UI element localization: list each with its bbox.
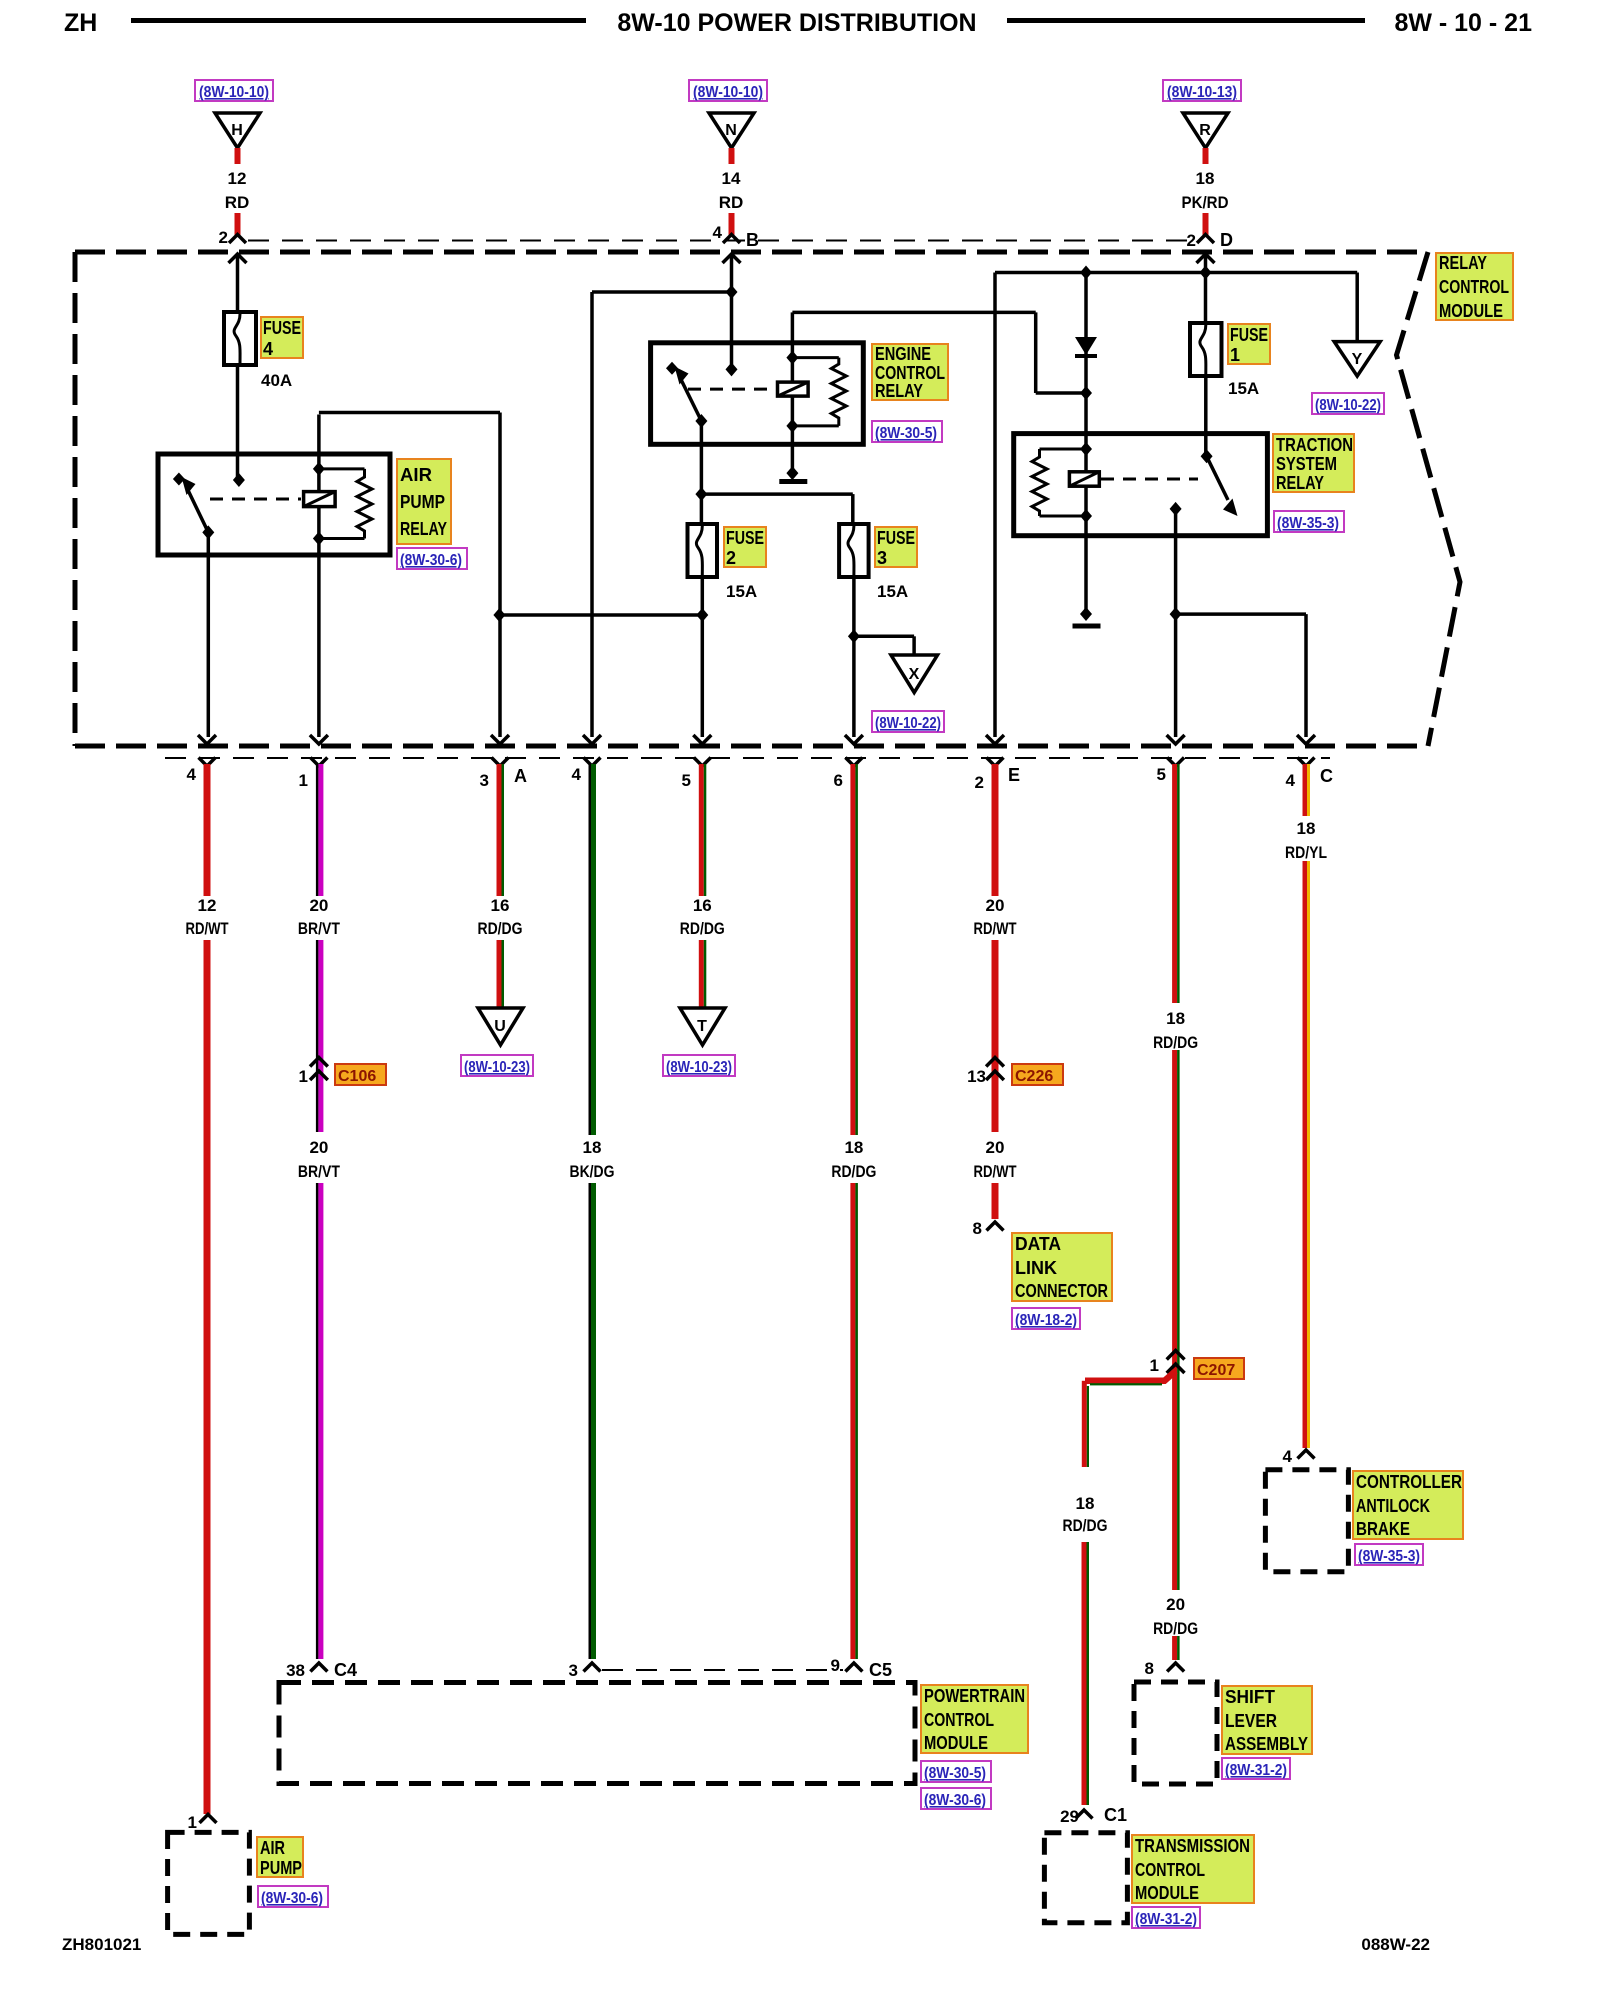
svg-text:(8W-30-6): (8W-30-6) bbox=[261, 1890, 323, 1907]
svg-text:18: 18 bbox=[1297, 819, 1316, 838]
diode D1 bbox=[1075, 266, 1097, 450]
ground symbol bbox=[779, 479, 807, 484]
svg-text:DATA: DATA bbox=[1015, 1234, 1061, 1254]
svg-text:RELAY: RELAY bbox=[1439, 253, 1487, 273]
svg-text:12: 12 bbox=[228, 169, 247, 188]
link (8W-31-2) bbox=[1222, 1758, 1290, 1779]
wire coil feed (L from x500 bus) bbox=[319, 413, 500, 616]
svg-text:8W - 10 - 21: 8W - 10 - 21 bbox=[1394, 9, 1532, 37]
svg-text:(8W-35-3): (8W-35-3) bbox=[1277, 515, 1339, 532]
svg-text:R: R bbox=[1199, 122, 1211, 139]
svg-text:8: 8 bbox=[973, 1219, 982, 1238]
svg-text:16: 16 bbox=[693, 896, 712, 915]
label AIR PUMP bbox=[257, 1837, 303, 1878]
svg-text:CONTROL: CONTROL bbox=[875, 363, 945, 383]
wire exit arrow pin 4 bbox=[198, 735, 216, 744]
traction relay switch bbox=[1201, 449, 1238, 516]
svg-text:15A: 15A bbox=[1228, 379, 1259, 398]
svg-text:(8W-31-2): (8W-31-2) bbox=[1225, 1762, 1287, 1779]
pin 9 C5 bbox=[831, 1656, 892, 1680]
svg-text:(8W-30-5): (8W-30-5) bbox=[875, 425, 937, 442]
pin 5 (fuse2 out) bbox=[682, 758, 711, 791]
svg-text:MODULE: MODULE bbox=[1439, 301, 1503, 321]
svg-text:18: 18 bbox=[844, 1138, 863, 1157]
svg-text:C: C bbox=[1320, 766, 1333, 786]
svg-text:PK/RD: PK/RD bbox=[1182, 193, 1229, 212]
air pump relay coil resistor bbox=[313, 462, 372, 546]
svg-text:(8W-10-13): (8W-10-13) bbox=[1167, 84, 1237, 101]
svg-text:088W-22: 088W-22 bbox=[1361, 1935, 1430, 1954]
wire air pump relay switch to pin 4 bbox=[207, 532, 211, 737]
svg-text:RD/DG: RD/DG bbox=[1153, 1033, 1198, 1052]
thin dashed pin line PCM bbox=[602, 1669, 843, 1671]
connector C207 bbox=[1150, 1351, 1244, 1380]
label RELAY CONTROL MODULE bbox=[1436, 253, 1513, 321]
label FUSE 2 bbox=[724, 527, 766, 568]
svg-text:ZH801021: ZH801021 bbox=[62, 1935, 141, 1954]
air pump box bbox=[168, 1832, 250, 1934]
air pump relay fixed contact dot bbox=[233, 473, 245, 487]
pin 38 C4 bbox=[286, 1660, 357, 1680]
svg-text:CONTROL: CONTROL bbox=[1439, 277, 1509, 297]
pin 4 node C bbox=[1286, 758, 1333, 791]
label DATA LINK CONNECTOR bbox=[1012, 1233, 1112, 1301]
engine control relay coil bbox=[778, 358, 809, 426]
wire air pump relay coil to pin 1 bbox=[317, 539, 321, 738]
connector C106 bbox=[299, 1058, 386, 1087]
link (8W-30-5) bbox=[921, 1761, 991, 1782]
wire 16 RD/DG column (T) bbox=[680, 764, 725, 1008]
svg-text:SYSTEM: SYSTEM bbox=[1276, 454, 1337, 474]
dashed actuator link bbox=[1101, 478, 1198, 481]
wire exit arrow pin 3 node A bbox=[491, 735, 509, 744]
arrow into module at pin 2 (H) bbox=[229, 254, 247, 312]
svg-text:H: H bbox=[231, 122, 243, 139]
dashed actuator link bbox=[210, 498, 301, 501]
svg-text:(8W-30-6): (8W-30-6) bbox=[400, 552, 462, 569]
svg-text:AIR: AIR bbox=[260, 1838, 285, 1858]
wire 18 PK/RD from R bbox=[1182, 148, 1229, 235]
svg-text:RD/DG: RD/DG bbox=[680, 919, 725, 938]
svg-text:U: U bbox=[494, 1018, 506, 1035]
svg-text:2: 2 bbox=[1187, 231, 1196, 250]
svg-text:E: E bbox=[1008, 765, 1020, 785]
shift lever assembly box bbox=[1134, 1682, 1217, 1784]
svg-text:LINK: LINK bbox=[1015, 1258, 1057, 1278]
wire 18 RD/DG column (C207) bbox=[1153, 764, 1198, 1590]
svg-text:8: 8 bbox=[1145, 1659, 1154, 1678]
svg-text:BRAKE: BRAKE bbox=[1356, 1519, 1410, 1539]
svg-text:RD/DG: RD/DG bbox=[1153, 1619, 1198, 1638]
connector triangle R (8W-10-13) bbox=[1163, 80, 1241, 148]
engine control relay box bbox=[651, 343, 864, 445]
svg-text:CONTROLLER: CONTROLLER bbox=[1356, 1472, 1462, 1492]
svg-text:C1: C1 bbox=[1104, 1805, 1127, 1825]
wire exit arrow pin 4 node C bbox=[1297, 735, 1315, 744]
air pump relay switch bbox=[173, 473, 214, 540]
arrow into module at pin 2 (D) bbox=[1197, 254, 1215, 280]
connector triangle T bbox=[680, 1008, 725, 1045]
wire branch to TCM bbox=[1063, 1371, 1176, 1805]
air pump relay box bbox=[158, 454, 390, 555]
svg-text:(8W-10-10): (8W-10-10) bbox=[199, 84, 269, 101]
ground symbol bbox=[1073, 624, 1101, 629]
svg-text:20: 20 bbox=[986, 1138, 1005, 1157]
air pump relay coil bbox=[304, 469, 336, 539]
label POWERTRAIN CONTROL MODULE bbox=[921, 1685, 1028, 1753]
transmission control module box bbox=[1044, 1833, 1127, 1923]
svg-text:C226: C226 bbox=[1015, 1068, 1053, 1085]
link (8W-18-2) bbox=[1012, 1308, 1080, 1329]
svg-text:TRACTION: TRACTION bbox=[1276, 435, 1353, 455]
traction relay output dot bbox=[1170, 502, 1182, 516]
engine control relay switch bbox=[666, 362, 707, 428]
pin 5 (traction out) bbox=[1157, 758, 1185, 785]
svg-text:ENGINE: ENGINE bbox=[875, 344, 931, 364]
thin dashed connector line at module top bbox=[248, 240, 1196, 242]
wire exit arrow pin 5 bbox=[693, 735, 711, 744]
node junction B bus bbox=[726, 285, 738, 299]
svg-text:18: 18 bbox=[1076, 1494, 1095, 1513]
svg-text:8W-10 POWER DISTRIBUTION: 8W-10 POWER DISTRIBUTION bbox=[617, 9, 976, 37]
dashed actuator link bbox=[688, 388, 775, 391]
svg-text:CONTROL: CONTROL bbox=[1135, 1860, 1205, 1880]
wire 20 BR/VT lower bbox=[298, 1138, 341, 1659]
engine control relay coil to ground bbox=[786, 426, 798, 480]
wire fuse3 to pin 6 and X bbox=[848, 577, 914, 737]
traction relay coil bbox=[1069, 449, 1099, 516]
wire 18 RD/YL column (C) bbox=[1285, 764, 1327, 1448]
svg-text:1: 1 bbox=[1230, 345, 1240, 365]
svg-text:BK/DG: BK/DG bbox=[570, 1162, 615, 1181]
wire 18 BK/DG column bbox=[570, 764, 615, 1659]
arrow into module at pin 4 (B) bbox=[723, 254, 741, 369]
svg-text:BR/VT: BR/VT bbox=[298, 919, 341, 938]
svg-text:12: 12 bbox=[198, 896, 217, 915]
wire exit arrow pin 6 bbox=[845, 735, 863, 744]
svg-text:RD/DG: RD/DG bbox=[478, 919, 523, 938]
svg-text:2: 2 bbox=[975, 773, 984, 792]
svg-text:PUMP: PUMP bbox=[400, 492, 445, 512]
pin 8 data link connector bbox=[973, 1219, 1004, 1238]
svg-text:4: 4 bbox=[263, 339, 273, 359]
fuse 4 bbox=[224, 312, 256, 365]
wire 12 RD/WT column bbox=[186, 764, 229, 1814]
svg-text:RD/DG: RD/DG bbox=[1063, 1516, 1108, 1535]
connector triangle U bbox=[478, 1008, 523, 1045]
label FUSE 1 bbox=[1228, 324, 1270, 365]
svg-text:ASSEMBLY: ASSEMBLY bbox=[1225, 1734, 1308, 1754]
svg-text:FUSE: FUSE bbox=[726, 528, 764, 548]
svg-text:3: 3 bbox=[480, 771, 489, 790]
link (8W-10-22) bbox=[872, 711, 944, 732]
wire 20 BR/VT column bbox=[298, 764, 341, 1132]
thin dashed connector line at module bottom bbox=[165, 757, 1330, 759]
pin 4 (air pump feed) bbox=[187, 758, 216, 785]
svg-text:2: 2 bbox=[726, 548, 736, 568]
svg-text:(8W-10-23): (8W-10-23) bbox=[464, 1059, 530, 1076]
svg-text:AIR: AIR bbox=[400, 465, 432, 485]
svg-text:T: T bbox=[697, 1018, 707, 1035]
svg-text:N: N bbox=[725, 122, 737, 139]
svg-text:9: 9 bbox=[831, 1656, 840, 1675]
pin 1 air pump bbox=[188, 1813, 217, 1832]
svg-text:C106: C106 bbox=[338, 1068, 376, 1085]
svg-text:MODULE: MODULE bbox=[924, 1733, 988, 1753]
svg-text:Y: Y bbox=[1352, 351, 1363, 368]
svg-text:POWERTRAIN: POWERTRAIN bbox=[924, 1686, 1025, 1706]
svg-text:(8W-30-6): (8W-30-6) bbox=[924, 1792, 986, 1809]
wire B bus to BK/DG column bbox=[592, 292, 732, 737]
svg-text:20: 20 bbox=[1166, 1595, 1185, 1614]
label FUSE 3 bbox=[875, 527, 917, 568]
svg-text:BR/VT: BR/VT bbox=[298, 1162, 341, 1181]
svg-text:1: 1 bbox=[1150, 1356, 1159, 1375]
svg-text:RD/WT: RD/WT bbox=[186, 919, 229, 938]
svg-text:RELAY: RELAY bbox=[400, 519, 447, 539]
wire coil feed from diode bus bbox=[792, 312, 1086, 393]
wire ECR switch to fuse2/fuse3 bbox=[695, 421, 852, 524]
svg-text:ANTILOCK: ANTILOCK bbox=[1356, 1496, 1430, 1516]
wire 14 RD from N bbox=[719, 148, 744, 235]
svg-text:3: 3 bbox=[877, 548, 887, 568]
svg-text:4: 4 bbox=[187, 765, 197, 784]
engine control relay fixed contact dot bbox=[726, 362, 738, 376]
svg-text:18: 18 bbox=[1166, 1009, 1185, 1028]
pin 4 (BK/DG) bbox=[572, 758, 601, 785]
svg-text:X: X bbox=[909, 666, 920, 683]
svg-text:14: 14 bbox=[722, 169, 741, 188]
svg-text:(8W-10-22): (8W-10-22) bbox=[1315, 397, 1381, 414]
svg-text:1: 1 bbox=[299, 771, 308, 790]
fuse 1 bbox=[1190, 323, 1222, 376]
svg-text:CONTROL: CONTROL bbox=[924, 1710, 994, 1730]
label AIR PUMP RELAY bbox=[397, 459, 451, 544]
svg-text:18: 18 bbox=[1196, 169, 1215, 188]
svg-text:4: 4 bbox=[713, 223, 723, 242]
svg-text:ZH: ZH bbox=[64, 9, 97, 37]
wire 12 RD from H bbox=[225, 148, 250, 235]
wire exit arrow pin 4 BK/DG bbox=[583, 735, 601, 744]
engine control relay coil resistor bbox=[786, 351, 846, 433]
svg-text:(8W-18-2): (8W-18-2) bbox=[1015, 1312, 1077, 1329]
svg-text:4: 4 bbox=[1286, 771, 1296, 790]
link (8W-10-23) bbox=[663, 1055, 735, 1076]
svg-text:MODULE: MODULE bbox=[1135, 1883, 1199, 1903]
pin 4 controller antilock brake bbox=[1283, 1447, 1315, 1466]
fuse 1 feed bbox=[1204, 273, 1208, 324]
pin 1 (BR/VT) bbox=[299, 758, 328, 791]
wire 20 RD/WT column (DLC) bbox=[974, 764, 1017, 1132]
traction relay coil resistor bbox=[1032, 442, 1092, 523]
fuse 3 bbox=[839, 524, 869, 577]
link (8W-35-3) bbox=[1355, 1544, 1423, 1565]
svg-text:A: A bbox=[514, 766, 527, 786]
svg-text:RD: RD bbox=[225, 193, 250, 212]
wire 20 RD/WT lower bbox=[974, 1138, 1017, 1219]
svg-text:15A: 15A bbox=[877, 582, 908, 601]
svg-text:RD: RD bbox=[719, 193, 744, 212]
svg-text:(8W-31-2): (8W-31-2) bbox=[1135, 1911, 1197, 1928]
svg-text:18: 18 bbox=[583, 1138, 602, 1157]
link (8W-31-2) bbox=[1132, 1907, 1200, 1928]
svg-text:B: B bbox=[746, 230, 759, 250]
traction relay coil to ground bbox=[1080, 516, 1092, 621]
fuse 2 bbox=[688, 524, 718, 577]
svg-text:(8W-35-3): (8W-35-3) bbox=[1358, 1548, 1420, 1565]
link (8W-30-5) bbox=[872, 421, 942, 442]
controller antilock brake box bbox=[1265, 1470, 1348, 1572]
svg-text:C5: C5 bbox=[869, 1660, 892, 1680]
connector C226 bbox=[967, 1058, 1063, 1087]
link (8W-30-6) bbox=[397, 548, 467, 569]
svg-text:FUSE: FUSE bbox=[877, 528, 915, 548]
svg-text:(8W-10-23): (8W-10-23) bbox=[666, 1059, 732, 1076]
svg-text:RD/DG: RD/DG bbox=[831, 1162, 876, 1181]
header bbox=[64, 9, 1532, 37]
svg-text:D: D bbox=[1220, 230, 1233, 250]
svg-text:15A: 15A bbox=[726, 582, 757, 601]
label CONTROLLER ANTILOCK BRAKE bbox=[1353, 1471, 1463, 1539]
footer bbox=[62, 1935, 1430, 1954]
connector triangle Y bbox=[1334, 342, 1380, 377]
svg-text:(8W-30-5): (8W-30-5) bbox=[924, 1765, 986, 1782]
svg-text:C207: C207 bbox=[1197, 1362, 1235, 1379]
svg-text:5: 5 bbox=[682, 771, 691, 790]
svg-text:38: 38 bbox=[286, 1661, 305, 1680]
connector triangle N (8W-10-10) bbox=[689, 80, 767, 148]
svg-text:20: 20 bbox=[986, 896, 1005, 915]
svg-text:RD/YL: RD/YL bbox=[1285, 843, 1327, 862]
svg-text:C4: C4 bbox=[334, 1660, 357, 1680]
wire 16 RD/DG column (U) bbox=[478, 764, 523, 1008]
link (8W-10-22) bbox=[1312, 393, 1384, 414]
svg-text:(8W-10-22): (8W-10-22) bbox=[875, 715, 941, 732]
svg-text:RD/WT: RD/WT bbox=[974, 1162, 1017, 1181]
svg-text:2: 2 bbox=[219, 228, 228, 247]
wire fuse4 to air pump relay bbox=[236, 365, 240, 478]
svg-text:16: 16 bbox=[491, 896, 510, 915]
wire traction output to pin 5 and pin C bbox=[1170, 509, 1306, 737]
wire exit arrow pin 2 node E bbox=[986, 735, 1004, 744]
link (8W-30-6) bbox=[921, 1788, 991, 1809]
svg-text:(8W-10-10): (8W-10-10) bbox=[693, 84, 763, 101]
svg-text:SHIFT: SHIFT bbox=[1225, 1687, 1275, 1707]
link (8W-30-6) bbox=[258, 1886, 328, 1907]
connector triangle X bbox=[891, 655, 938, 693]
svg-text:20: 20 bbox=[309, 1138, 328, 1157]
label TRACTION SYSTEM RELAY bbox=[1273, 434, 1354, 493]
traction system relay box bbox=[1014, 434, 1268, 536]
label TRANSMISSION CONTROL MODULE bbox=[1132, 1835, 1254, 1903]
wire 20 RD/DG to shift lever bbox=[1153, 1595, 1198, 1660]
wire 18 RD/DG column (C5) bbox=[831, 764, 876, 1659]
svg-text:RELAY: RELAY bbox=[1276, 473, 1324, 493]
bus D horizontal bbox=[995, 273, 1357, 738]
pin 2 of relay control module (node H feed) bbox=[219, 228, 246, 247]
pin 8 shift lever bbox=[1145, 1659, 1185, 1678]
wire exit arrow pin 5 traction bbox=[1167, 735, 1185, 744]
pin 4 node B bbox=[713, 223, 759, 250]
svg-text:CONNECTOR: CONNECTOR bbox=[1015, 1281, 1108, 1301]
wire exit arrow pin 1 bbox=[310, 735, 328, 744]
connector triangle H (8W-10-10) bbox=[195, 80, 273, 148]
powertrain control module box bbox=[279, 1683, 915, 1784]
svg-text:13: 13 bbox=[967, 1067, 986, 1086]
svg-text:LEVER: LEVER bbox=[1225, 1711, 1277, 1731]
link (8W-10-23) bbox=[461, 1055, 533, 1076]
svg-text:3: 3 bbox=[569, 1661, 578, 1680]
wire fuse2 to junction bus bbox=[493, 577, 708, 737]
relay control module dashed boundary bbox=[75, 252, 1460, 746]
svg-text:RELAY: RELAY bbox=[875, 381, 923, 401]
label ENGINE CONTROL RELAY bbox=[872, 344, 948, 401]
svg-text:1: 1 bbox=[299, 1067, 308, 1086]
svg-text:4: 4 bbox=[572, 765, 582, 784]
label SHIFT LEVER ASSEMBLY bbox=[1222, 1686, 1312, 1754]
pin 2 node E bbox=[975, 758, 1020, 793]
svg-text:PUMP: PUMP bbox=[260, 1858, 302, 1878]
svg-text:1: 1 bbox=[188, 1813, 197, 1832]
svg-text:5: 5 bbox=[1157, 765, 1166, 784]
pin 2 node D bbox=[1187, 230, 1233, 250]
wire fuse1 to traction relay switch bbox=[1204, 376, 1208, 456]
pin 3 node A bbox=[480, 758, 527, 791]
link (8W-35-3) bbox=[1274, 511, 1344, 532]
svg-text:20: 20 bbox=[309, 896, 328, 915]
svg-text:FUSE: FUSE bbox=[1230, 325, 1268, 345]
svg-text:TRANSMISSION: TRANSMISSION bbox=[1135, 1836, 1250, 1856]
svg-text:40A: 40A bbox=[261, 371, 292, 390]
pin 6 (fuse3 out) bbox=[834, 758, 863, 791]
svg-text:FUSE: FUSE bbox=[263, 318, 301, 338]
svg-text:RD/WT: RD/WT bbox=[974, 919, 1017, 938]
pin 3 PCM bbox=[569, 1661, 601, 1680]
pin 29 C1 bbox=[1060, 1805, 1127, 1826]
svg-text:4: 4 bbox=[1283, 1447, 1293, 1466]
svg-text:6: 6 bbox=[834, 771, 843, 790]
label FUSE 4 bbox=[261, 317, 303, 359]
